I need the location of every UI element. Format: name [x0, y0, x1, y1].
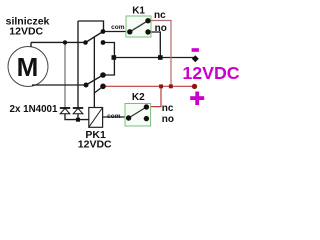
K2 no dot	[144, 116, 149, 121]
relay contact K1 box	[126, 16, 151, 37]
junction node minus bus left	[112, 55, 117, 60]
wire top rail	[78, 21, 104, 32]
wire diagonal to red bus node	[94, 86, 103, 93]
terminal minus dot	[192, 55, 199, 62]
junction node K1 com line	[101, 29, 106, 34]
junction node mid	[100, 72, 106, 78]
wire bottom rail to coil	[65, 114, 89, 120]
svg-text:2x 1N4001: 2x 1N4001	[10, 104, 58, 115]
diode D1 cathode bar	[60, 107, 70, 109]
wire D2 anode	[77, 114, 79, 120]
diode D2 cathode bar	[73, 107, 83, 109]
diode D1 triangle	[60, 108, 70, 114]
junction node red bus start	[100, 84, 106, 90]
relay contact K2 box	[125, 104, 151, 127]
svg-text:K2: K2	[132, 92, 145, 103]
relay coil PK1	[89, 108, 103, 128]
K2 lever	[129, 107, 147, 118]
junction node minus bus / K1 no	[158, 55, 163, 60]
motor M1 circle	[8, 47, 48, 87]
wire motor top horizontal	[31, 41, 86, 43]
red wire K2 nc drop	[151, 86, 161, 106]
supply plus sign	[190, 96, 204, 100]
svg-text:nc: nc	[162, 103, 174, 114]
wire K1 no drop	[150, 32, 160, 58]
wire node to minus-bus jog	[103, 43, 114, 76]
K2 nc dot	[144, 104, 149, 109]
wire diode column D1	[64, 42, 66, 108]
K1 nc dot	[145, 18, 150, 23]
K2 com dot	[126, 115, 131, 120]
K1 com dot	[127, 29, 132, 34]
wire motor top stub	[30, 42, 32, 47]
wire diagonal motor-bottom to node	[86, 75, 103, 85]
red plus bus	[103, 85, 195, 87]
svg-text:M: M	[17, 52, 39, 82]
junction red bus / K1 drop	[169, 84, 173, 88]
wire motor bottom	[32, 84, 86, 86]
svg-text:no: no	[162, 114, 174, 125]
wire K1 com	[103, 31, 128, 33]
junction node motor-top / D1	[63, 40, 67, 44]
junction node motor-top / diagonal	[83, 40, 88, 45]
svg-text:no: no	[155, 23, 167, 34]
wire coil-top vertical	[93, 37, 95, 107]
junction node dot2	[101, 40, 106, 45]
svg-text:com: com	[111, 24, 125, 31]
terminal plus dot	[192, 84, 197, 89]
svg-text:nc: nc	[154, 10, 166, 21]
junction red bus / K2 drop	[159, 84, 163, 88]
K1 lever	[130, 21, 148, 32]
svg-text:K1: K1	[132, 6, 145, 17]
wire diagonal motor-top to K1com node	[86, 32, 104, 43]
junction node motor-bottom	[84, 83, 89, 88]
wire diode column D2	[77, 21, 79, 108]
svg-text:12VDC: 12VDC	[9, 26, 43, 38]
svg-text:com: com	[107, 113, 121, 120]
diode D2 triangle	[73, 108, 83, 114]
red wire K1 nc to bus	[150, 21, 171, 87]
svg-text:12VDC: 12VDC	[182, 63, 239, 83]
wire minus bus	[114, 57, 196, 59]
supply minus sign	[192, 48, 199, 52]
K1 no dot	[145, 29, 150, 34]
wire coil to K2 com	[103, 116, 128, 118]
svg-text:12VDC: 12VDC	[78, 139, 112, 151]
junction node bottom rail	[76, 118, 80, 122]
